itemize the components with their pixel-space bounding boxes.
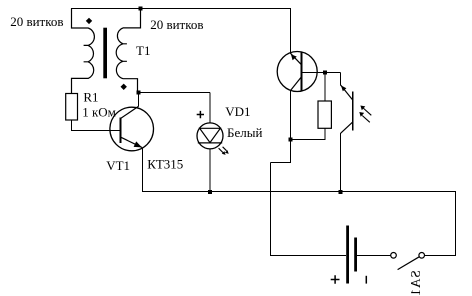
node junction top rail	[139, 7, 143, 11]
battery plus sign	[331, 275, 340, 283]
wire top rail	[71, 8, 291, 10]
svg-text:Белый: Белый	[227, 125, 262, 140]
node junction collector/winding/LED	[137, 91, 141, 95]
battery GB1 short plate	[354, 238, 357, 272]
node junction base/R2	[323, 71, 327, 75]
transistor VT1	[110, 106, 154, 150]
wire R1 bottom to VT1 base	[72, 120, 121, 131]
LED VD1	[197, 123, 223, 149]
wire phototransistor emitter down	[340, 133, 342, 192]
transformer polarity dot left	[86, 18, 92, 24]
LED emission arrows	[219, 147, 229, 155]
wire VT2 base	[302, 72, 341, 74]
svg-text:VT1: VT1	[106, 158, 130, 173]
wire R2 top lead	[324, 73, 326, 102]
wire R2 bottom to collector	[290, 129, 325, 140]
transformer T1 core	[103, 28, 107, 79]
wire VT2 collector down with jog	[271, 91, 291, 256]
svg-text:1 кОм: 1 кОм	[82, 105, 116, 120]
wire VT1 collector	[138, 93, 140, 107]
phototransistor	[341, 85, 353, 133]
wire mid rail	[142, 191, 456, 193]
resistor R1	[66, 94, 78, 121]
resistor R2	[318, 101, 331, 128]
wire switch to right edge	[425, 255, 457, 257]
svg-text:КТ315: КТ315	[147, 157, 183, 172]
wire battery to switch	[357, 255, 391, 257]
svg-text:20 витков: 20 витков	[150, 17, 203, 32]
wire phototransistor top lead	[340, 73, 342, 86]
transformer T1 left winding	[72, 9, 95, 94]
wire winding to LED top	[139, 93, 211, 124]
phototransistor arrow	[341, 85, 347, 91]
svg-text:SA1: SA1	[408, 270, 423, 296]
light arrows	[359, 106, 371, 123]
LED plus sign	[197, 111, 204, 118]
battery minus sign	[365, 276, 367, 284]
wire VT1 emitter drop	[142, 148, 144, 193]
svg-text:R1: R1	[83, 90, 98, 105]
wire right edge down	[455, 192, 457, 256]
switch SA1 contact right	[419, 253, 425, 259]
wire LED bottom	[209, 149, 211, 193]
battery GB1 long plate	[346, 226, 349, 284]
svg-text:VD1: VD1	[225, 104, 250, 119]
node junction LED on rail	[208, 190, 212, 194]
transformer T1 right winding	[116, 9, 140, 93]
node junction photo emitter on rail	[339, 190, 343, 194]
svg-text:20 витков: 20 витков	[10, 14, 63, 29]
transistor VT2	[277, 52, 317, 92]
transformer polarity dot right	[121, 84, 127, 90]
transistor VT1 emitter arrow	[134, 141, 142, 147]
wire Q2 emitter drop	[290, 9, 292, 54]
node junction R2/collector	[289, 138, 293, 142]
svg-text:T1: T1	[136, 43, 150, 58]
transistor VT2 emitter arrow	[291, 54, 297, 60]
switch SA1 lever	[398, 257, 420, 270]
switch SA1 contact left	[391, 253, 397, 259]
wire bottom to battery	[270, 255, 346, 257]
